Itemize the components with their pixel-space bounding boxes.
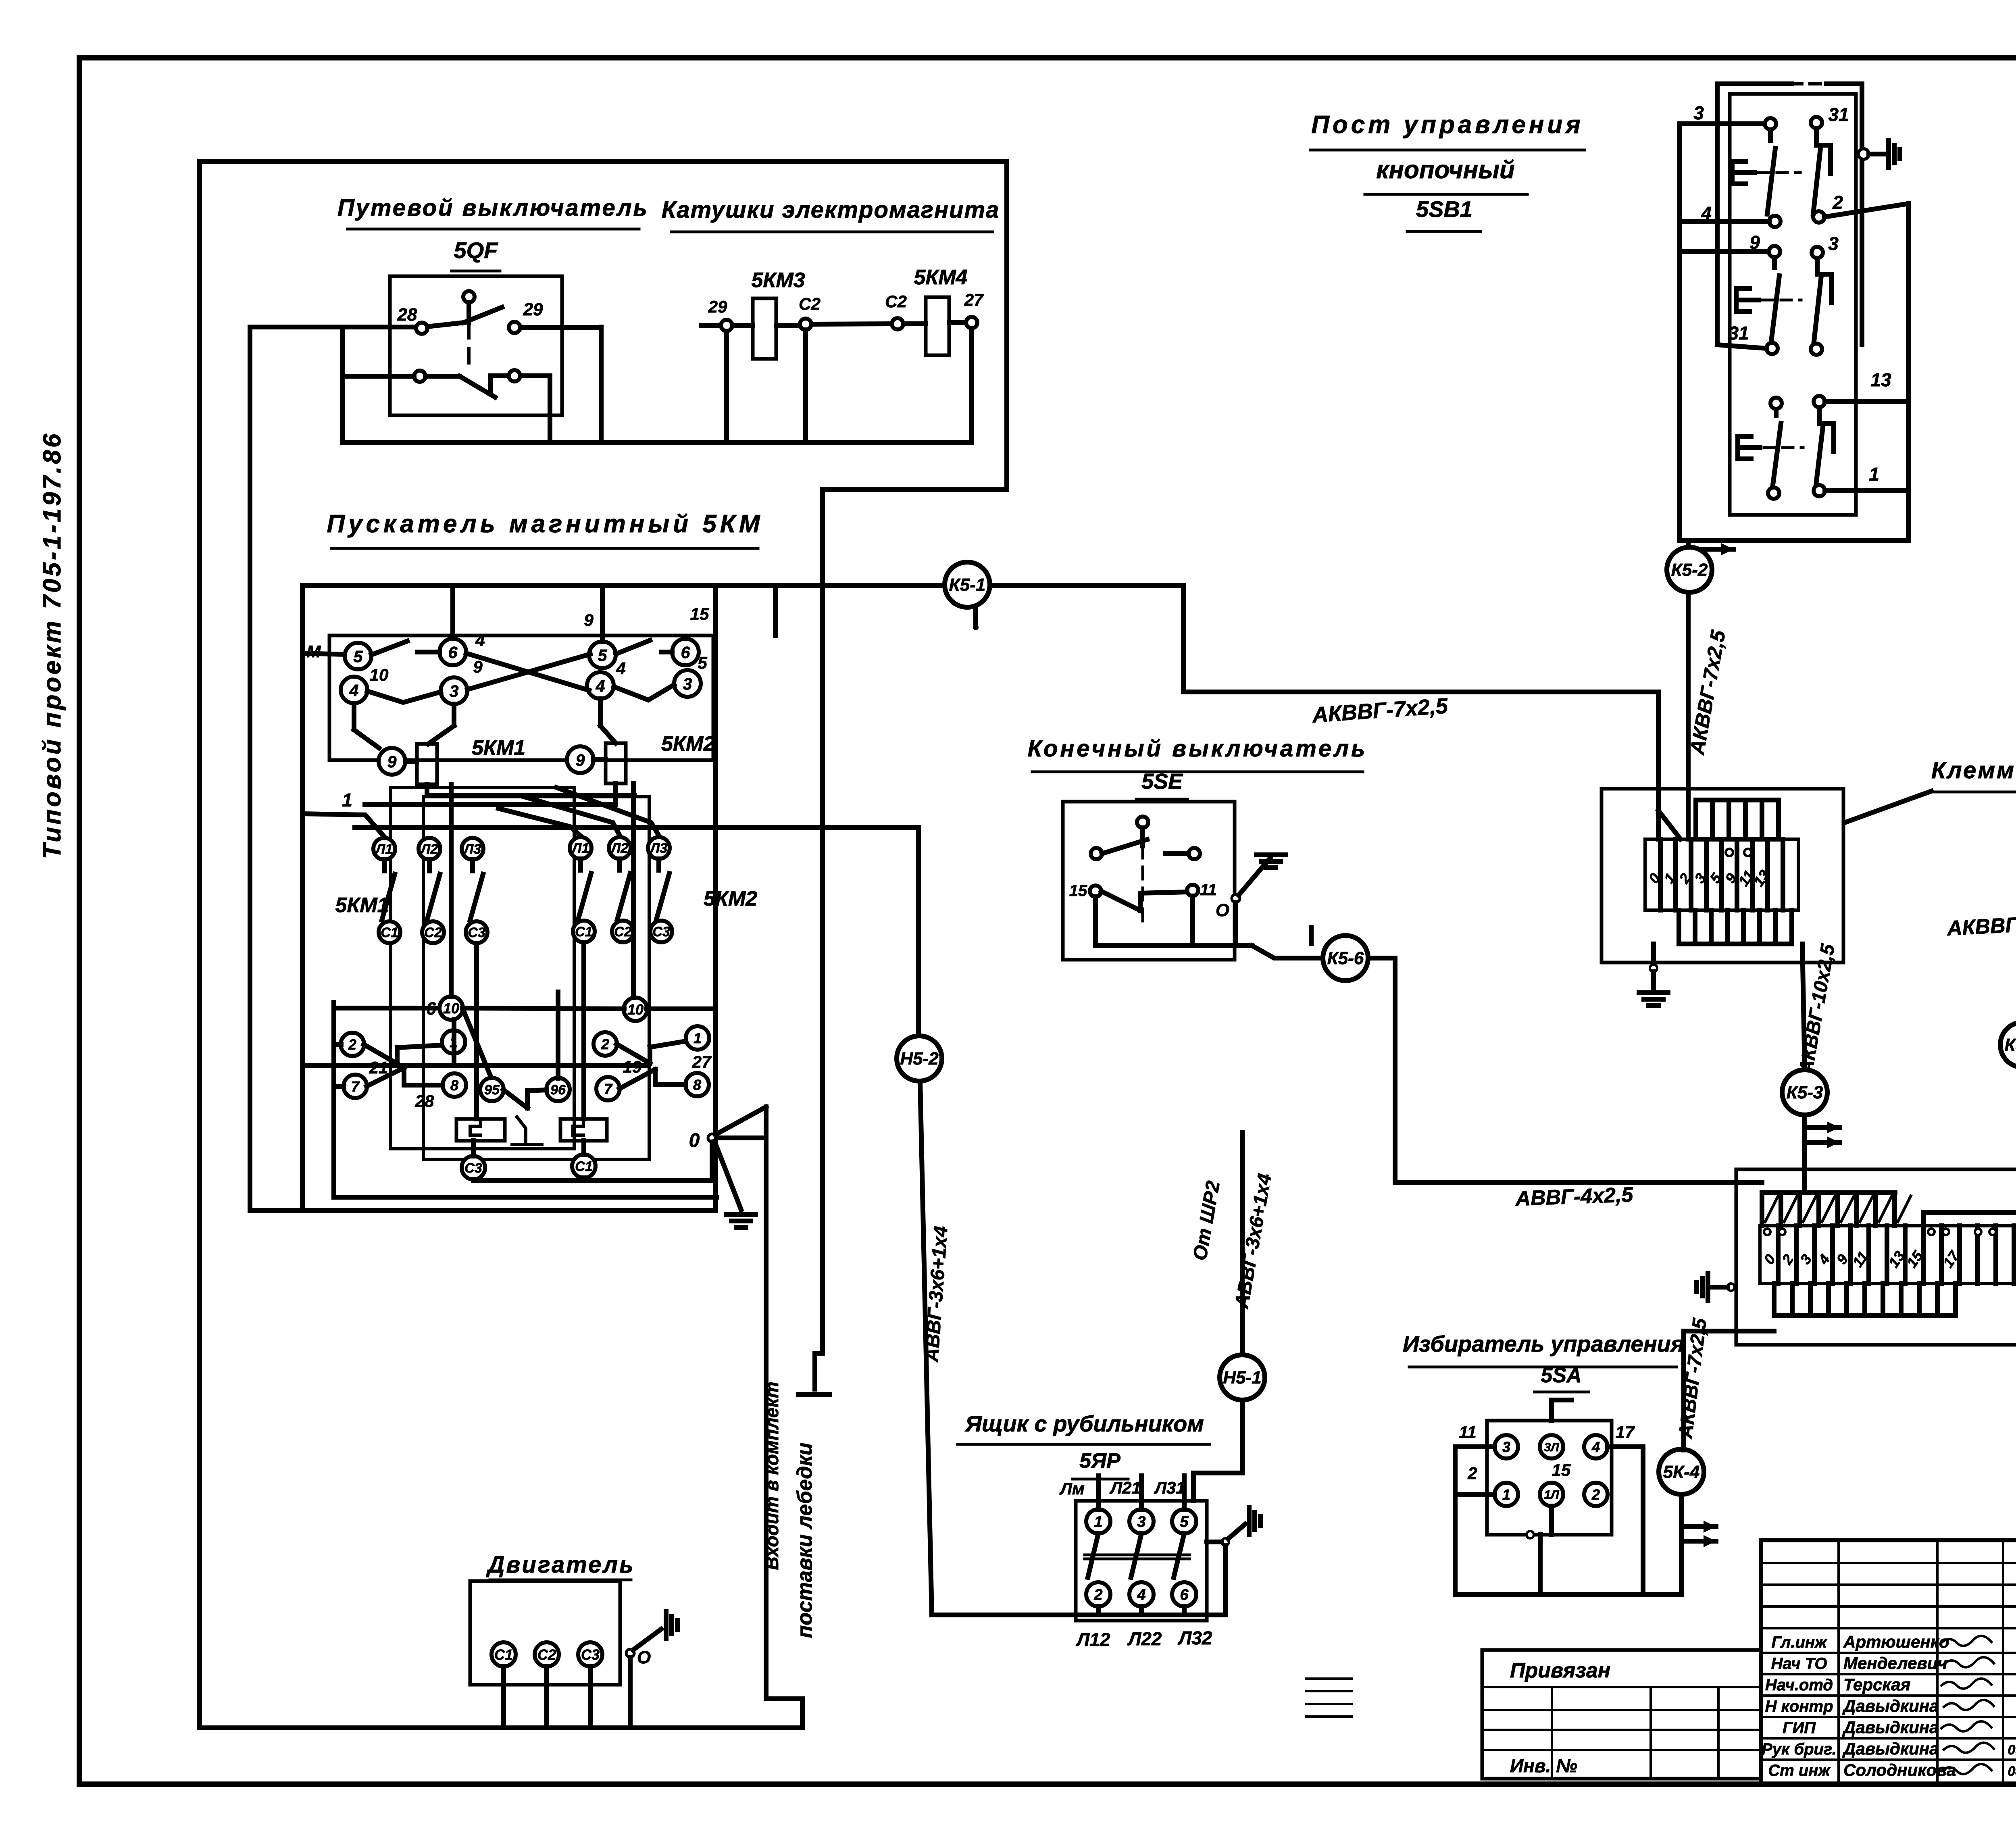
- svg-text:О: О: [1216, 900, 1229, 920]
- svg-text:5КМ1: 5КМ1: [472, 736, 525, 760]
- svg-text:С2: С2: [614, 924, 632, 940]
- svg-text:0: 0: [689, 1130, 700, 1151]
- svg-text:1Л: 1Л: [1544, 1488, 1560, 1502]
- svg-text:Инв. №: Инв. №: [1510, 1755, 1577, 1776]
- svg-text:Ящик с рубильником: Ящик с рубильником: [964, 1411, 1204, 1436]
- svg-text:Нач ТО: Нач ТО: [1771, 1655, 1827, 1673]
- svg-text:1: 1: [1502, 1486, 1510, 1503]
- svg-text:6: 6: [448, 643, 458, 662]
- svg-text:Л22: Л22: [1127, 1628, 1162, 1649]
- svg-text:7: 7: [604, 1081, 613, 1097]
- svg-text:Л12: Л12: [1076, 1629, 1110, 1650]
- svg-text:Типовой проект 705-1-197.86: Типовой проект 705-1-197.86: [38, 431, 66, 859]
- svg-text:1: 1: [1094, 1514, 1102, 1531]
- svg-text:Пускатель магнитный 5КМ: Пускатель магнитный 5КМ: [327, 510, 764, 538]
- svg-text:Артюшенко: Артюшенко: [1843, 1632, 1949, 1651]
- svg-text:поставки лебедки: поставки лебедки: [793, 1443, 816, 1638]
- svg-text:5: 5: [354, 647, 363, 666]
- svg-text:2: 2: [348, 1036, 356, 1053]
- svg-text:9: 9: [584, 610, 594, 629]
- svg-text:3: 3: [1502, 1439, 1510, 1455]
- svg-text:4: 4: [1591, 1439, 1600, 1455]
- svg-text:Пост управления: Пост управления: [1311, 111, 1584, 139]
- svg-text:2: 2: [1093, 1587, 1102, 1604]
- svg-text:С2: С2: [799, 294, 821, 313]
- svg-text:10: 10: [627, 1001, 644, 1018]
- svg-text:Л3: Л3: [649, 841, 667, 856]
- svg-text:11: 11: [1200, 881, 1217, 899]
- svg-text:Ст инж: Ст инж: [1768, 1762, 1831, 1779]
- svg-text:Л3: Л3: [463, 842, 481, 857]
- svg-text:3: 3: [1137, 1514, 1145, 1531]
- svg-text:С2: С2: [424, 925, 442, 940]
- svg-text:1: 1: [1869, 464, 1879, 485]
- svg-text:С1: С1: [381, 925, 398, 940]
- svg-text:Давыдкина: Давыдкина: [1842, 1739, 1939, 1758]
- svg-text:5К-4: 5К-4: [1663, 1462, 1700, 1482]
- svg-text:5SE: 5SE: [1141, 769, 1183, 794]
- svg-text:9: 9: [576, 751, 585, 769]
- svg-text:27: 27: [692, 1052, 712, 1071]
- svg-text:Избиратель управления: Избиратель управления: [1403, 1331, 1684, 1356]
- svg-text:Л21: Л21: [1109, 1478, 1141, 1497]
- svg-text:28: 28: [415, 1092, 434, 1110]
- svg-text:С1: С1: [575, 924, 592, 940]
- svg-text:Катушки электромагнита: Катушки электромагнита: [662, 197, 1000, 223]
- svg-text:АВВГ-4х2,5: АВВГ-4х2,5: [1514, 1183, 1634, 1210]
- svg-text:Двигатель: Двигатель: [485, 1552, 635, 1578]
- svg-text:Л1: Л1: [571, 841, 589, 856]
- svg-text:15: 15: [690, 604, 709, 623]
- svg-text:С3: С3: [581, 1646, 600, 1663]
- svg-text:С2: С2: [537, 1646, 556, 1663]
- svg-text:29: 29: [708, 297, 727, 316]
- svg-text:4: 4: [349, 681, 359, 700]
- svg-text:5КМ3: 5КМ3: [751, 269, 805, 292]
- svg-text:К5-5: К5-5: [2005, 1035, 2016, 1055]
- svg-text:5КМ4: 5КМ4: [914, 266, 967, 289]
- svg-text:5КМ2: 5КМ2: [661, 732, 715, 756]
- svg-text:10: 10: [443, 1000, 459, 1017]
- svg-text:С1: С1: [494, 1646, 513, 1663]
- svg-text:4: 4: [1137, 1587, 1145, 1604]
- svg-text:Менделевич: Менделевич: [1843, 1654, 1947, 1673]
- svg-text:ГИП: ГИП: [1783, 1719, 1816, 1737]
- svg-text:С3: С3: [652, 924, 670, 940]
- svg-text:К5-2: К5-2: [1671, 560, 1708, 580]
- svg-text:Солодникова: Солодникова: [1843, 1760, 1956, 1779]
- svg-text:Гл.инж: Гл.инж: [1771, 1633, 1828, 1651]
- svg-text:Конечный выключатель: Конечный выключатель: [1028, 735, 1368, 762]
- svg-text:6: 6: [1180, 1587, 1189, 1604]
- svg-text:Входит в комплект: Входит в комплект: [761, 1381, 782, 1570]
- svg-text:Л32: Л32: [1178, 1627, 1212, 1648]
- svg-text:13: 13: [1870, 369, 1891, 390]
- svg-text:О: О: [637, 1648, 651, 1667]
- svg-text:Терская: Терская: [1843, 1675, 1910, 1694]
- svg-text:С1: С1: [575, 1159, 592, 1174]
- svg-text:5: 5: [598, 646, 608, 665]
- svg-text:4: 4: [475, 631, 485, 650]
- svg-text:Н5-2: Н5-2: [900, 1049, 939, 1069]
- svg-text:10: 10: [370, 665, 389, 684]
- svg-text:Давыдкина: Давыдкина: [1842, 1718, 1939, 1737]
- svg-text:Давыдкина: Давыдкина: [1842, 1696, 1939, 1715]
- svg-text:6: 6: [681, 643, 691, 662]
- svg-text:17: 17: [1616, 1423, 1635, 1442]
- svg-text:К5-6: К5-6: [1327, 948, 1364, 968]
- svg-text:29: 29: [523, 300, 543, 319]
- svg-text:3: 3: [450, 682, 459, 700]
- svg-text:15: 15: [1069, 882, 1087, 900]
- svg-text:5: 5: [698, 653, 707, 672]
- svg-text:С3: С3: [464, 1160, 482, 1176]
- svg-text:Путевой выключатель: Путевой выключатель: [337, 195, 649, 221]
- svg-text:8: 8: [693, 1077, 701, 1093]
- svg-text:95: 95: [484, 1082, 500, 1098]
- svg-text:11: 11: [1459, 1423, 1477, 1442]
- svg-text:5ЯР: 5ЯР: [1079, 1449, 1120, 1473]
- svg-text:5QF: 5QF: [454, 238, 499, 263]
- svg-text:2: 2: [1467, 1464, 1477, 1483]
- svg-text:09.85: 09.85: [2008, 1742, 2016, 1758]
- svg-text:31: 31: [1828, 104, 1849, 125]
- svg-text:Привязан: Привязан: [1510, 1659, 1610, 1682]
- svg-text:Л31: Л31: [1154, 1478, 1185, 1497]
- svg-text:96: 96: [550, 1082, 566, 1098]
- svg-text:Л2: Л2: [420, 842, 438, 857]
- svg-text:9: 9: [387, 752, 397, 771]
- svg-text:С3: С3: [468, 925, 485, 940]
- svg-text:6: 6: [426, 999, 436, 1019]
- svg-text:3: 3: [1693, 102, 1704, 123]
- svg-text:7: 7: [351, 1078, 360, 1095]
- svg-text:1: 1: [694, 1030, 702, 1046]
- svg-text:Н5-1: Н5-1: [1223, 1368, 1261, 1388]
- svg-text:К5-1: К5-1: [949, 575, 986, 595]
- svg-text:15: 15: [1552, 1460, 1571, 1479]
- svg-text:5КМ2: 5КМ2: [704, 887, 757, 910]
- svg-text:3: 3: [683, 675, 692, 693]
- svg-text:Рук бриг.: Рук бриг.: [1762, 1740, 1837, 1758]
- svg-text:08.85: 08.85: [2008, 1764, 2016, 1779]
- svg-text:3Л: 3Л: [1544, 1441, 1560, 1454]
- svg-text:4: 4: [616, 659, 625, 678]
- svg-text:2: 2: [1591, 1486, 1600, 1503]
- svg-text:Нач.отд: Нач.отд: [1765, 1676, 1833, 1694]
- svg-text:1: 1: [342, 790, 352, 810]
- svg-text:3: 3: [1828, 233, 1839, 254]
- svg-text:Л1: Л1: [375, 842, 393, 857]
- svg-text:Л2: Л2: [610, 841, 628, 856]
- svg-text:2: 2: [1832, 192, 1843, 213]
- svg-text:Н контр: Н контр: [1765, 1698, 1833, 1715]
- svg-text:Клеммная коробка 5КК1: Клеммная коробка 5КК1: [1931, 757, 2016, 783]
- svg-text:31: 31: [1728, 323, 1749, 344]
- svg-text:5SB1: 5SB1: [1416, 196, 1472, 222]
- svg-text:кнопочный: кнопочный: [1376, 156, 1515, 184]
- svg-text:28: 28: [397, 305, 417, 325]
- svg-text:4: 4: [596, 677, 605, 695]
- svg-text:К5-3: К5-3: [1787, 1083, 1823, 1102]
- svg-text:Лм: Лм: [1059, 1479, 1085, 1498]
- svg-text:5КМ1: 5КМ1: [335, 894, 389, 917]
- svg-text:5: 5: [1180, 1514, 1189, 1531]
- svg-text:8: 8: [450, 1077, 458, 1094]
- svg-text:2: 2: [601, 1036, 609, 1052]
- svg-text:С2: С2: [885, 292, 907, 311]
- svg-text:27: 27: [964, 290, 984, 309]
- svg-text:5SA: 5SA: [1541, 1364, 1581, 1387]
